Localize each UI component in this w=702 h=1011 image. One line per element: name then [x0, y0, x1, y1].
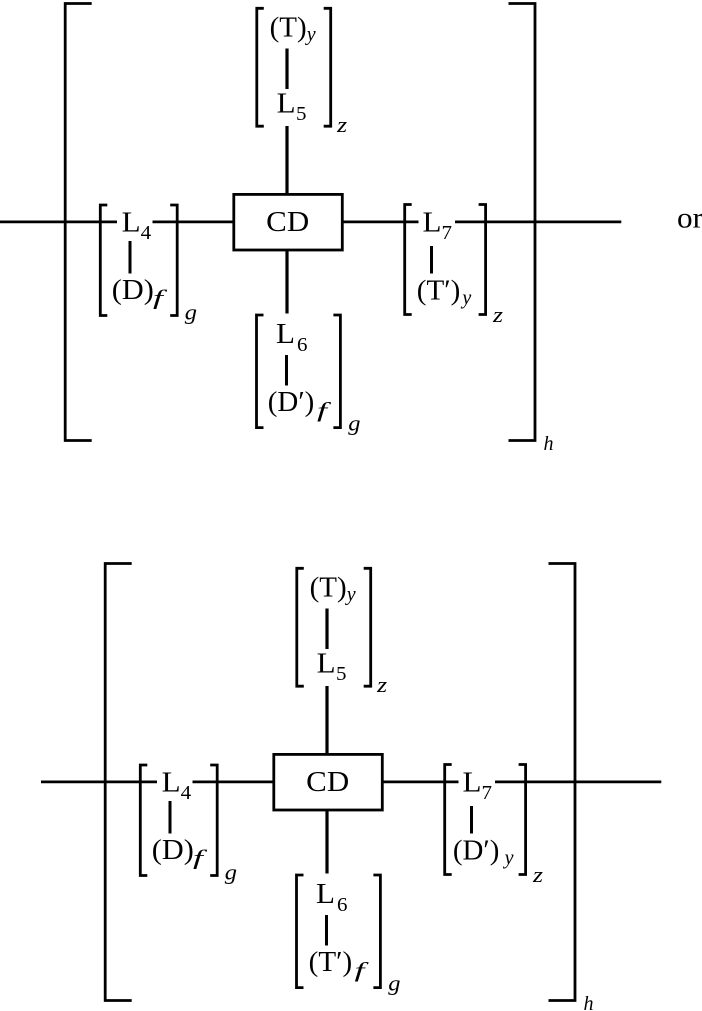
formula 1: CD box [234, 194, 342, 250]
svg-text:5: 5 [296, 103, 307, 125]
svg-text:y: y [503, 847, 514, 869]
svg-text:g: g [225, 860, 237, 885]
svg-text:L: L [316, 879, 335, 910]
formula 1: wire bond CD box to L7 group [344, 221, 419, 224]
svg-text:g: g [388, 971, 400, 996]
formula 2: wire bond (T)y to L5 [325, 609, 328, 650]
formula 2: wire bond L7 down [470, 806, 473, 834]
svg-text:f: f [317, 398, 332, 422]
svg-text:f: f [355, 958, 370, 982]
svg-text:L: L [276, 319, 295, 350]
svg-text:f: f [153, 285, 168, 309]
formula 1: outer left bracket [65, 4, 92, 441]
svg-text:g: g [348, 411, 360, 436]
formula 2: CD box [274, 754, 383, 810]
svg-text:7: 7 [482, 782, 493, 804]
formula 2: wire bond L5 to CD box [325, 686, 328, 754]
svg-text:(D′): (D′) [453, 835, 500, 867]
formula 1: left group left bracket [100, 205, 107, 316]
formula 1: wire main chain far left [0, 221, 117, 224]
formula 1: top group right bracket [324, 8, 331, 126]
formula 2: wire bond L4 group to CD box [193, 780, 274, 783]
svg-text:f: f [193, 845, 208, 869]
formula 2: top group right bracket [364, 568, 371, 686]
formula 1: wire bond CD box to bottom group [285, 250, 288, 314]
svg-text:L: L [317, 649, 336, 680]
formula 2: wire bond L4 to (D) [169, 801, 172, 834]
formula 1: wire bond L7 down [430, 246, 433, 274]
svg-text:(D): (D) [112, 274, 154, 306]
formula 2: outer left bracket [105, 564, 132, 1001]
formula 2: wire main chain far right [495, 780, 661, 783]
svg-text:(T): (T) [310, 572, 347, 604]
svg-text:CD: CD [306, 767, 349, 798]
formula 1: wire bond L4 group to CD box [153, 221, 234, 224]
formula 1: top group left bracket [257, 8, 264, 126]
svg-text:L: L [122, 208, 141, 239]
formula 1: left group right bracket [170, 205, 177, 316]
formula 1: bottom group left bracket [257, 315, 264, 428]
formula 1: wire bond (T)y to L5 [285, 49, 288, 90]
formula 1: right group right bracket [479, 205, 486, 315]
svg-text:or: or [677, 202, 702, 235]
svg-text:g: g [185, 300, 197, 325]
svg-text:(D): (D) [152, 834, 194, 866]
svg-text:y: y [345, 583, 356, 605]
formula 2: top group left bracket [297, 568, 304, 686]
formula 2: wire bond CD box to bottom group [325, 810, 328, 874]
svg-text:4: 4 [181, 782, 192, 804]
formula 1: wire main chain far right [455, 221, 621, 224]
svg-text:CD: CD [266, 207, 309, 238]
formula 2: left group right bracket [210, 765, 217, 876]
svg-text:(T′): (T′) [417, 275, 461, 307]
formula 1: outer right bracket [509, 4, 536, 441]
svg-text:7: 7 [442, 222, 453, 244]
formula 2: bottom group right bracket [373, 875, 380, 988]
svg-text:(T): (T) [270, 12, 307, 44]
svg-text:L: L [162, 768, 181, 799]
svg-text:6: 6 [297, 334, 308, 356]
formula 1: wire bond L4 to (D) [129, 241, 132, 274]
formula 2: wire bond L6 down [325, 915, 328, 946]
svg-text:z: z [532, 862, 544, 887]
svg-text:(D′): (D′) [268, 386, 315, 418]
svg-text:y: y [460, 287, 471, 309]
formula 2: wire main chain far left [41, 780, 157, 783]
svg-text:4: 4 [141, 222, 152, 244]
svg-text:h: h [584, 993, 594, 1011]
svg-text:L: L [423, 208, 442, 239]
formula 2: bottom group left bracket [297, 875, 304, 988]
formula 1: wire bond L6 down [285, 355, 288, 386]
formula 2: left group left bracket [140, 765, 147, 876]
svg-text:6: 6 [337, 894, 348, 916]
formula 1: bottom group right bracket [333, 315, 340, 428]
svg-text:L: L [463, 768, 482, 799]
formula 2: right group left bracket [445, 765, 452, 875]
formula 1: wire bond L5 to CD box [285, 126, 288, 194]
formula 2: outer right bracket [549, 564, 576, 1001]
svg-text:z: z [336, 112, 348, 137]
svg-text:h: h [544, 433, 554, 455]
formula 1: right group left bracket [405, 205, 412, 315]
svg-text:(T′): (T′) [309, 946, 353, 978]
formula 2: right group right bracket [519, 765, 526, 875]
svg-text:z: z [376, 672, 388, 697]
svg-text:z: z [492, 302, 504, 327]
svg-text:L: L [277, 89, 296, 120]
svg-text:5: 5 [336, 663, 347, 685]
formula 2: wire bond CD box to L7 group [384, 780, 459, 783]
svg-text:y: y [305, 23, 316, 45]
